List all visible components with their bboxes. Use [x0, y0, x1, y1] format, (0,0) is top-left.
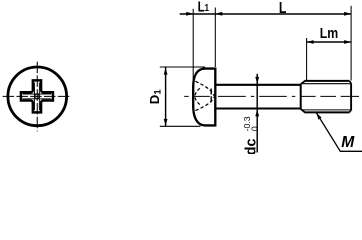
hidden recess slot bottom (side view) — [210, 89, 212, 105]
head outline (side view) — [193, 69, 215, 126]
phillips recess inner wall lines (front view) — [23, 83, 51, 111]
leader line M — [316, 113, 362, 152]
shank top line — [216, 84, 300, 86]
phillips recess center diamond (front view) — [34, 94, 40, 100]
dimension line dc upper — [256, 74, 258, 153]
leader arrowhead — [316, 113, 321, 120]
arrow L right — [344, 12, 351, 16]
screw axis centerline (side view) — [184, 95, 359, 97]
svg-text:L1: L1 — [198, 0, 209, 15]
arrow D1 top — [164, 68, 168, 75]
thread major diameter top — [305, 80, 350, 82]
extension line thread start (Lm) — [306, 38, 308, 81]
extension line head left (L1) — [192, 9, 194, 110]
thread minor diameter bottom — [303, 109, 351, 111]
thread entry chamfer top — [301, 81, 305, 84]
extension line thread end (L/Lm) — [350, 6, 352, 81]
front view horizontal centerline — [3, 95, 72, 97]
head bearing face (side view) — [214, 68, 216, 127]
arrow dc top — [255, 77, 259, 84]
phillips cross recess outline (front view) — [21, 80, 53, 112]
dimension line D1 — [165, 68, 167, 127]
svg-text:0: 0 — [249, 126, 259, 131]
arrow Lm right — [344, 40, 351, 44]
thread major diameter bottom — [305, 111, 350, 113]
svg-text:M: M — [341, 134, 355, 151]
shank bottom line — [216, 107, 300, 109]
dimension line Lm — [307, 41, 352, 43]
thread end face — [350, 83, 352, 110]
hidden recess line upper (side view) — [195, 81, 214, 96]
thread entry chamfer bottom — [301, 109, 305, 112]
arrow L1 right / L left — [215, 12, 222, 16]
arrow dc bottom — [255, 109, 259, 116]
thread end chamfer bottom — [349, 110, 351, 112]
extension line head right (L1/L) — [214, 8, 216, 68]
hidden recess line lower (side view) — [195, 97, 214, 111]
thread minor diameter top — [303, 83, 351, 85]
extension line D1 top — [160, 66, 205, 68]
svg-text:Lm: Lm — [320, 25, 338, 41]
svg-text:L: L — [279, 0, 287, 17]
label dc tolerance 0 / -0.3 (rotated) — [242, 116, 259, 131]
svg-text:dc: dc — [243, 138, 259, 154]
arrow Lm left — [307, 40, 314, 44]
front view vertical centerline — [36, 62, 38, 132]
hidden recess apex chevron (side view) — [195, 88, 200, 104]
arrow D1 bottom — [164, 119, 168, 126]
thread end chamfer top — [349, 81, 351, 83]
arrow L1 left — [186, 12, 193, 16]
thread section left face — [300, 84, 302, 109]
head outer circle (front view) — [8, 67, 67, 126]
extension line D1 bottom — [160, 125, 201, 127]
dimension line L1/L — [180, 13, 351, 15]
